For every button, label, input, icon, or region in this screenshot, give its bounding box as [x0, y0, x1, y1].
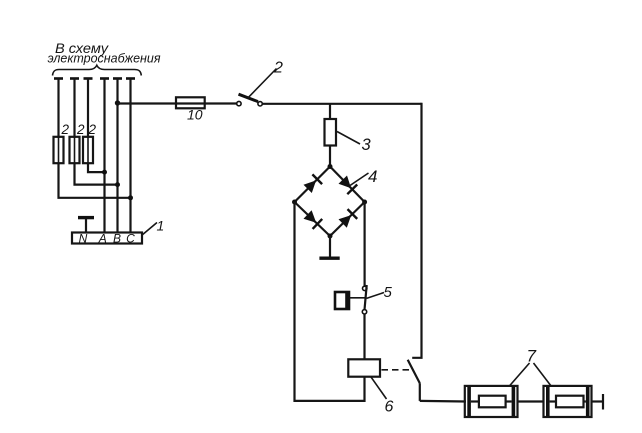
wire feed to fuse 10: [118, 102, 177, 104]
junction dot on line 5: [115, 182, 120, 187]
terminal block 1 with terminals N A B C: [72, 231, 142, 245]
svg-text:6: 6: [385, 399, 394, 416]
svg-text:электроснабжения: электроснабжения: [48, 52, 161, 66]
svg-text:5: 5: [384, 284, 393, 301]
svg-text:1: 1: [157, 218, 165, 234]
node bottom vertex: [328, 234, 333, 239]
arm top-right: [330, 167, 365, 203]
wire fuse3 output to line 4: [88, 163, 105, 172]
wire switch 5 to relay 6: [363, 314, 365, 359]
wire contact to vibrators: [420, 400, 466, 403]
net label: В схему электроснабжения: [48, 40, 161, 66]
wire top junction to resistor 3: [329, 104, 331, 119]
vibrator 7 (second): [544, 386, 592, 417]
label 3 with leader: [337, 132, 372, 155]
vibrator 7 (first): [465, 386, 518, 417]
diode BL: [304, 210, 323, 229]
diode TR: [339, 176, 358, 195]
wire stub after second vibrator: [592, 394, 604, 410]
wire bridge left vertex down and along bottom to relay 6: [295, 202, 365, 401]
svg-text:A: A: [98, 231, 107, 245]
svg-text:2: 2: [76, 122, 85, 137]
label 1 with leader: [142, 218, 165, 236]
label 6 with leader: [371, 377, 394, 416]
node top vertex: [328, 164, 333, 169]
diode BR: [339, 209, 358, 228]
wire coupling between vibrators: [518, 400, 544, 402]
svg-text:2: 2: [88, 122, 97, 137]
arm bottom-left: [295, 202, 331, 236]
resistor 3: [325, 119, 337, 146]
wire supply line 4 (to terminal A): [100, 79, 109, 233]
svg-text:7: 7: [527, 347, 537, 366]
junction dot feed on line 5: [115, 100, 120, 105]
node right vertex: [362, 200, 367, 205]
wire supply line 3: [84, 79, 93, 139]
fuse 2 (first): [54, 122, 70, 163]
label 2 with leader (switch): [248, 60, 283, 98]
dashed mechanical link relay to contact: [382, 369, 412, 371]
svg-text:N: N: [79, 231, 88, 245]
brace over supply wires: [53, 65, 142, 75]
label 7 with leaders: [510, 347, 552, 386]
pushbutton switch 5: [335, 285, 367, 314]
wire fuse1 output to line 6: [59, 163, 131, 198]
node left vertex: [292, 200, 297, 205]
contact blade (operated by relay 6): [408, 360, 420, 401]
wire right side drop (corner to contact): [412, 103, 421, 358]
label 4 with leader: [350, 167, 377, 186]
relay coil 6: [348, 359, 380, 376]
fuse 2 (third): [83, 122, 97, 163]
diode TL: [304, 174, 323, 193]
wire supply line 2: [70, 79, 79, 139]
label 5 with leader: [367, 284, 393, 301]
wire switch to right corner: [262, 103, 421, 105]
wire resistor to bridge top: [329, 146, 331, 167]
svg-text:3: 3: [362, 136, 372, 154]
svg-text:B: B: [113, 231, 121, 245]
junction dot on line 6: [128, 195, 133, 200]
wire supply line 1 (phase, top tick + drop to fuse): [54, 79, 63, 139]
wire supply line 5 (to terminal B, feeds fuse 10): [113, 79, 122, 233]
rectifier bridge 4: arm top-left: [295, 167, 331, 203]
fuse 2 (second): [70, 122, 86, 163]
ground below bridge: [319, 236, 339, 258]
svg-text:4: 4: [368, 167, 377, 186]
junction dot on line 4: [102, 170, 107, 175]
neutral bar symbol above terminal N: [78, 218, 94, 233]
svg-text:2: 2: [61, 122, 70, 137]
wire supply line 6 (to terminal C): [126, 79, 135, 233]
wire fuse2 output to line 5: [75, 163, 118, 184]
arm bottom-right: [330, 202, 365, 236]
svg-text:10: 10: [187, 107, 203, 123]
switch 2: [237, 94, 263, 106]
svg-text:2: 2: [273, 60, 283, 77]
fuse 10: [176, 97, 237, 122]
svg-text:C: C: [126, 231, 135, 245]
wire bridge right vertex down to switch 5: [364, 202, 366, 286]
